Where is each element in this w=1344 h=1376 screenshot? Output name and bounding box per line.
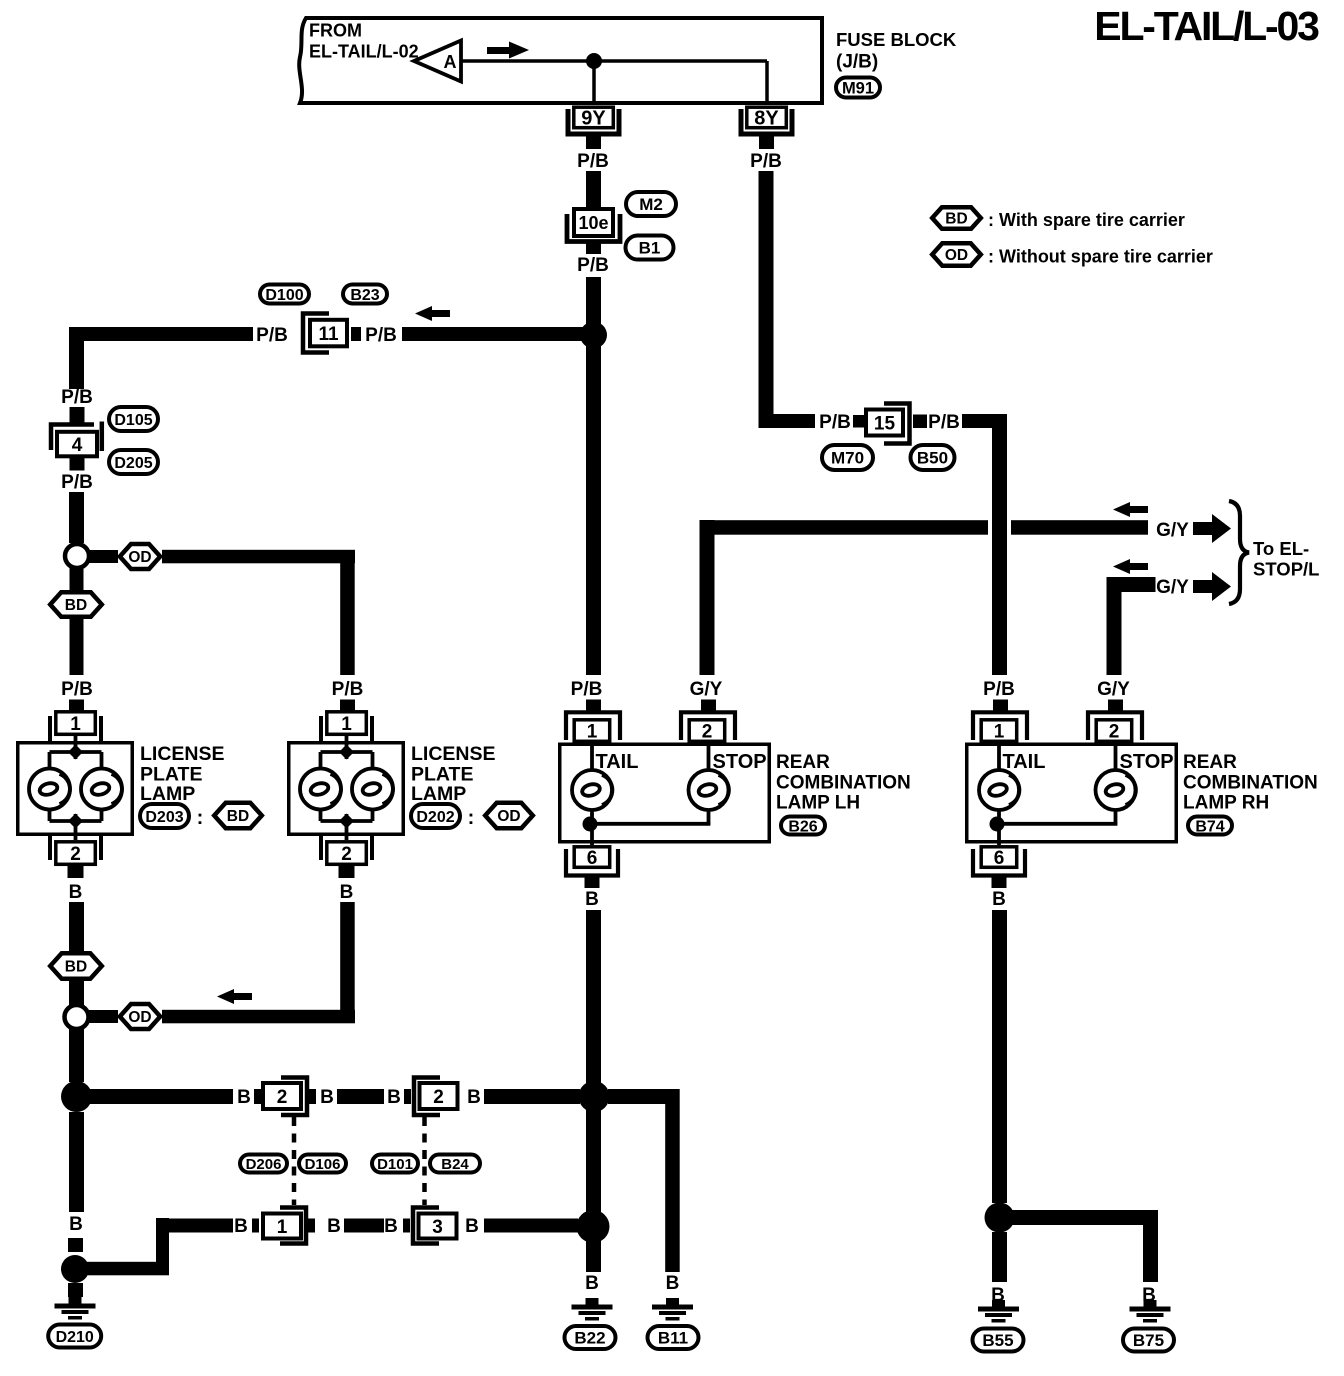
svg-text:LAMP LH: LAMP LH: [776, 793, 860, 814]
ground D210: [69, 1297, 82, 1304]
svg-text:2: 2: [702, 721, 713, 742]
wire BD to license plate lamp D203 pin 1: [70, 619, 84, 675]
junction node left row 1: [61, 1081, 92, 1112]
svg-text:B: B: [585, 889, 599, 910]
wire segment: [337, 1089, 384, 1104]
ground id B75: [1123, 1329, 1174, 1352]
wire B rear lamp LH pin 6 to ground B22: [586, 910, 601, 1272]
connector id D106: [299, 1155, 346, 1173]
svg-text:COMBINATION: COMBINATION: [776, 773, 911, 794]
svg-text:: With spare tire carrier: : With spare tire carrier: [988, 210, 1185, 230]
svg-text:2: 2: [1109, 721, 1120, 742]
svg-text:P/B: P/B: [61, 472, 93, 493]
node top: [339, 745, 354, 760]
svg-text:B55: B55: [982, 1331, 1013, 1350]
connector 2 (D206/D106): [281, 1078, 307, 1116]
arrow to EL-STOP/L line 2: [1193, 580, 1213, 593]
internal wiring: [345, 736, 349, 759]
wire junction to B75 elbow: [1000, 1210, 1159, 1225]
svg-text:D100: D100: [265, 287, 303, 304]
wire P/B 9Y to connector 10e: [586, 171, 601, 208]
svg-text:TAIL: TAIL: [1003, 751, 1046, 773]
connector id M2: [626, 192, 676, 216]
svg-text:B: B: [234, 1216, 248, 1237]
svg-text:OD: OD: [128, 1009, 151, 1026]
svg-text:1: 1: [587, 721, 598, 742]
svg-text:B1: B1: [639, 239, 661, 258]
wire P/B to OD/BD split node: [69, 492, 84, 543]
node bottom: [68, 814, 83, 829]
internal junction node: [990, 817, 1005, 832]
connector id D202: [411, 804, 460, 828]
svg-text:D105: D105: [114, 412, 152, 429]
svg-text:LICENSE: LICENSE: [140, 743, 225, 765]
node split circle lower (OD/BD): [65, 1005, 89, 1029]
rear combination lamp RH body: [967, 744, 1177, 842]
dashed link D206-D106: [292, 1117, 297, 1205]
flow arrow left on G/Y wire: [1113, 502, 1130, 517]
flow arrow left lower OD wire: [217, 989, 234, 1004]
wire OD to license lamp D202 pin 2 elbow: [162, 1010, 355, 1024]
wire stub: [254, 1089, 261, 1104]
flow arrow right inside fuse block: [487, 47, 510, 54]
wire stub: [252, 1219, 259, 1233]
svg-text:COMBINATION: COMBINATION: [1183, 773, 1318, 794]
svg-text:B22: B22: [574, 1329, 605, 1348]
junction node row1 middle: [579, 1081, 610, 1112]
svg-text:P/B: P/B: [928, 412, 960, 433]
svg-text:LICENSE: LICENSE: [411, 743, 496, 765]
wire circle to BD option: [70, 568, 84, 591]
svg-text:P/B: P/B: [983, 679, 1015, 700]
connector id D206: [240, 1155, 287, 1173]
svg-text:6: 6: [587, 848, 598, 869]
connector id B23: [343, 285, 387, 304]
connector id B1: [626, 236, 674, 260]
bulb left: [300, 769, 341, 810]
rear combination lamp LH pin 6: [566, 849, 618, 876]
svg-text:B: B: [467, 1087, 481, 1108]
ground id B22: [565, 1326, 616, 1349]
svg-text:2: 2: [70, 844, 81, 865]
connector 2 (D101/B24): [414, 1078, 440, 1116]
arrow connector A (triangle): [414, 41, 461, 82]
wire P/B 8Y down to elbow: [759, 171, 774, 428]
svg-text:M91: M91: [842, 79, 874, 97]
wire B license lamp D202 pin 2 down: [340, 902, 355, 1023]
connector 11 (D100/B23): [303, 314, 329, 353]
svg-text:B26: B26: [788, 818, 817, 835]
rear combination lamp LH pin 2: [701, 700, 716, 712]
svg-text:D210: D210: [56, 1329, 94, 1346]
junction node left row 2 (D210): [61, 1255, 89, 1283]
svg-text:9Y: 9Y: [581, 108, 606, 130]
connector id M70: [822, 445, 873, 470]
svg-text:2: 2: [341, 844, 352, 865]
option tag BD lower: [50, 953, 102, 979]
svg-text:P/B: P/B: [571, 679, 603, 700]
junction node RH ground split: [985, 1203, 1015, 1233]
svg-text:TAIL: TAIL: [596, 751, 639, 773]
svg-text:8Y: 8Y: [754, 108, 779, 130]
wire OD to license plate lamp D202 pin 1: [162, 550, 355, 564]
svg-text:D206: D206: [246, 1156, 282, 1173]
svg-text:LAMP: LAMP: [411, 783, 466, 805]
connector id D205: [109, 450, 158, 474]
wire B rear lamp RH pin 6 down: [992, 910, 1007, 1203]
bulb right: [81, 769, 122, 810]
license plate lamp body (D203): [18, 743, 133, 835]
svg-text:M2: M2: [639, 195, 663, 214]
brace To EL-STOP/L: [1229, 501, 1249, 604]
svg-text:15: 15: [874, 413, 896, 434]
wire P/B junction to connector 11: [402, 327, 584, 341]
svg-text:B: B: [340, 882, 354, 903]
tail bulb: [572, 770, 612, 810]
svg-text:A: A: [444, 52, 457, 72]
svg-text:G/Y: G/Y: [1156, 520, 1189, 541]
stop bulb: [689, 770, 729, 810]
node split circle (OD/BD): [65, 544, 89, 568]
stop bulb: [1096, 770, 1136, 810]
wire G/Y from RH stop pin to EL-STOP/L: [1107, 577, 1156, 592]
node junction inside fuse block: [586, 53, 602, 69]
svg-text:STOP: STOP: [1120, 751, 1174, 773]
svg-text:P/B: P/B: [750, 151, 782, 172]
wire row1 to B11 elbow: [608, 1089, 680, 1104]
wire stub right of connector 11 box: [351, 327, 361, 341]
svg-text::: :: [468, 807, 475, 829]
wire to 9Y: [592, 61, 596, 102]
wire down left column: [69, 1112, 84, 1212]
svg-text:D205: D205: [114, 455, 152, 472]
wire to OD option: [89, 550, 118, 563]
option tag BD on wire: [50, 592, 102, 617]
option tag OD: [485, 803, 533, 828]
connector terminal 8Y: [741, 109, 792, 134]
wire to D210 junction: [68, 1238, 83, 1252]
svg-text:P/B: P/B: [577, 255, 609, 276]
svg-text:BD: BD: [65, 959, 87, 976]
svg-text:D101: D101: [377, 1156, 413, 1173]
connector id B50: [911, 445, 955, 470]
legend option tag OD: [932, 243, 981, 266]
svg-text:P/B: P/B: [819, 412, 851, 433]
wire circle down to ground row junction: [69, 1029, 84, 1082]
svg-text:EL-TAIL/L-03: EL-TAIL/L-03: [1094, 3, 1319, 49]
flow arrow left on wire: [415, 306, 432, 321]
wire P/B down left column: [69, 327, 84, 389]
svg-text:1: 1: [994, 721, 1005, 742]
svg-text:D202: D202: [416, 809, 454, 826]
license plate lamp pin 2 (D202): [319, 834, 323, 860]
svg-text:B74: B74: [1195, 818, 1224, 835]
wire to 8Y: [765, 61, 769, 102]
junction node row2 middle: [577, 1210, 610, 1243]
svg-text:B: B: [387, 1087, 401, 1108]
stop bulb wiring: [1114, 743, 1118, 771]
svg-text:FUSE BLOCK: FUSE BLOCK: [836, 29, 957, 50]
connector id D100: [260, 285, 309, 304]
wire to middle junction row2: [484, 1219, 578, 1233]
wire to OD lower: [89, 1010, 118, 1023]
node bottom: [339, 814, 354, 829]
license plate lamp pin 2 (D203): [48, 834, 52, 860]
svg-text::: :: [197, 807, 204, 829]
stop bulb wiring: [707, 743, 711, 771]
rear combination lamp RH pin 2: [1108, 700, 1123, 712]
rear combination lamp LH pin 1: [586, 700, 601, 712]
wire P/B down to RH lamp pin 1: [992, 414, 1007, 675]
wire inside fuse block: [461, 59, 767, 63]
wire segment: [344, 1219, 384, 1233]
wire P/B down to rear combination lamp LH pin 1: [586, 277, 601, 675]
svg-text:B23: B23: [350, 287, 379, 304]
svg-text:G/Y: G/Y: [690, 679, 723, 700]
svg-text:P/B: P/B: [577, 151, 609, 172]
rear combination lamp LH body: [560, 744, 770, 842]
svg-text:2: 2: [277, 1087, 288, 1108]
connector 4 (D105/D205): [70, 407, 85, 424]
wire BD to circle node: [69, 981, 84, 1005]
svg-text:P/B: P/B: [256, 325, 288, 346]
tail bulb: [979, 770, 1019, 810]
svg-text:LAMP: LAMP: [140, 783, 195, 805]
svg-text:1: 1: [341, 714, 352, 735]
license plate lamp pin 1 (D202): [319, 716, 323, 742]
wire stub to ground D210: [68, 1283, 83, 1297]
license plate lamp pin 1 (D203): [48, 716, 52, 742]
connector id B26: [781, 817, 825, 835]
connector id D203: [140, 804, 189, 828]
wire B below license lamp D203: [69, 902, 84, 951]
svg-text:P/B: P/B: [61, 387, 93, 408]
rear combination lamp RH pin 6: [973, 849, 1025, 876]
svg-text:1: 1: [70, 714, 81, 735]
svg-text:6: 6: [994, 848, 1005, 869]
svg-text:P/B: P/B: [332, 679, 364, 700]
svg-text:3: 3: [432, 1217, 443, 1238]
node top: [68, 745, 83, 760]
svg-text:4: 4: [72, 435, 83, 456]
svg-text:BD: BD: [945, 211, 967, 228]
connector id D101: [372, 1155, 418, 1173]
svg-text:B: B: [666, 1273, 680, 1294]
connector 3 (D101 lower): [413, 1208, 439, 1244]
svg-text:OD: OD: [945, 247, 968, 264]
svg-text:OD: OD: [128, 549, 151, 566]
arrow to EL-STOP/L line 1: [1193, 522, 1213, 535]
svg-text:P/B: P/B: [365, 325, 397, 346]
ground B75: [1144, 1300, 1157, 1307]
svg-text:: Without spare tire carrier: : Without spare tire carrier: [988, 247, 1213, 267]
svg-text:B: B: [585, 1273, 599, 1294]
flow arrow left on G/Y wire 2: [1113, 559, 1130, 574]
svg-text:BD: BD: [65, 597, 87, 614]
svg-text:B75: B75: [1133, 1331, 1164, 1350]
svg-text:1: 1: [277, 1217, 288, 1238]
svg-text:B11: B11: [658, 1329, 688, 1348]
dashed link D101-B24: [422, 1117, 427, 1205]
internal junction node: [583, 817, 598, 832]
connector 15 (M70/B50): [884, 404, 910, 444]
svg-text:B: B: [69, 882, 83, 903]
svg-text:B: B: [992, 889, 1006, 910]
connector id D105: [109, 407, 158, 431]
svg-text:11: 11: [318, 324, 339, 345]
svg-text:B: B: [327, 1216, 341, 1237]
svg-text:B: B: [465, 1216, 479, 1237]
fuse block (J/B) box with torn left edge: [299, 18, 822, 103]
svg-text:10e: 10e: [578, 213, 608, 233]
wire junction down to B55: [992, 1232, 1007, 1282]
connector M91: [836, 78, 880, 98]
svg-text:STOP: STOP: [713, 751, 767, 773]
bulb left: [29, 769, 70, 810]
tail bulb wiring: [997, 743, 1001, 771]
internal wiring: [74, 736, 78, 759]
svg-text:REAR: REAR: [1183, 752, 1237, 773]
wire junction to row 2 elbow: [85, 1262, 169, 1276]
connector 10e (M2/B1): [567, 214, 620, 242]
wire P/B elbow to connector 15: [759, 414, 816, 428]
wire G/Y from LH stop pin to EL-STOP/L: [700, 520, 989, 535]
svg-text:B: B: [69, 1214, 83, 1235]
connector id B24: [430, 1155, 480, 1173]
option tag BD: [214, 803, 262, 828]
ground B22: [586, 1298, 599, 1305]
svg-text:REAR: REAR: [776, 752, 830, 773]
ground id B11: [648, 1326, 699, 1349]
wire B row1 from junction: [90, 1089, 233, 1104]
svg-text:FROM: FROM: [309, 21, 362, 41]
svg-text:LAMP RH: LAMP RH: [1183, 793, 1269, 814]
svg-text:OD: OD: [497, 808, 520, 825]
wire to middle junction: [484, 1089, 580, 1104]
svg-text:D203: D203: [145, 809, 183, 826]
svg-text:(J/B): (J/B): [836, 52, 878, 73]
connector 1 (D206 lower): [280, 1208, 306, 1244]
svg-text:B: B: [320, 1087, 334, 1108]
svg-text:B: B: [237, 1087, 251, 1108]
svg-text:EL-TAIL/L-02: EL-TAIL/L-02: [309, 42, 419, 62]
svg-text:M70: M70: [831, 449, 864, 468]
svg-text:BD: BD: [227, 808, 249, 825]
svg-text:B24: B24: [441, 1156, 469, 1173]
svg-text:B: B: [384, 1216, 398, 1237]
option tag OD on wire: [120, 544, 160, 569]
wire P/B connector 15 to right elbow: [962, 414, 1007, 428]
legend option tag BD: [932, 207, 981, 229]
junction node on P/B wire: [580, 322, 607, 349]
ground id D210: [48, 1325, 101, 1348]
option tag OD lower: [120, 1004, 160, 1029]
svg-text:B50: B50: [917, 449, 948, 468]
svg-text:P/B: P/B: [61, 679, 93, 700]
svg-text:STOP/L: STOP/L: [1253, 559, 1319, 580]
rear combination lamp RH pin 1: [993, 700, 1008, 712]
svg-text:2: 2: [433, 1087, 444, 1108]
wire P/B connector 11 to left elbow: [69, 327, 253, 341]
svg-text:G/Y: G/Y: [1156, 577, 1189, 598]
svg-text:G/Y: G/Y: [1097, 679, 1130, 700]
wire B row2 from left elbow: [162, 1219, 233, 1233]
ground B55: [992, 1300, 1005, 1307]
bulb right: [352, 769, 393, 810]
svg-text:D106: D106: [305, 1156, 341, 1173]
ground id B55: [973, 1329, 1024, 1352]
license plate lamp body (D202): [289, 743, 404, 835]
tail bulb wiring: [590, 743, 594, 771]
connector terminal 9Y: [568, 109, 619, 134]
ground B11: [666, 1298, 679, 1305]
svg-text:To EL-: To EL-: [1253, 538, 1309, 559]
connector id B74: [1188, 817, 1232, 835]
